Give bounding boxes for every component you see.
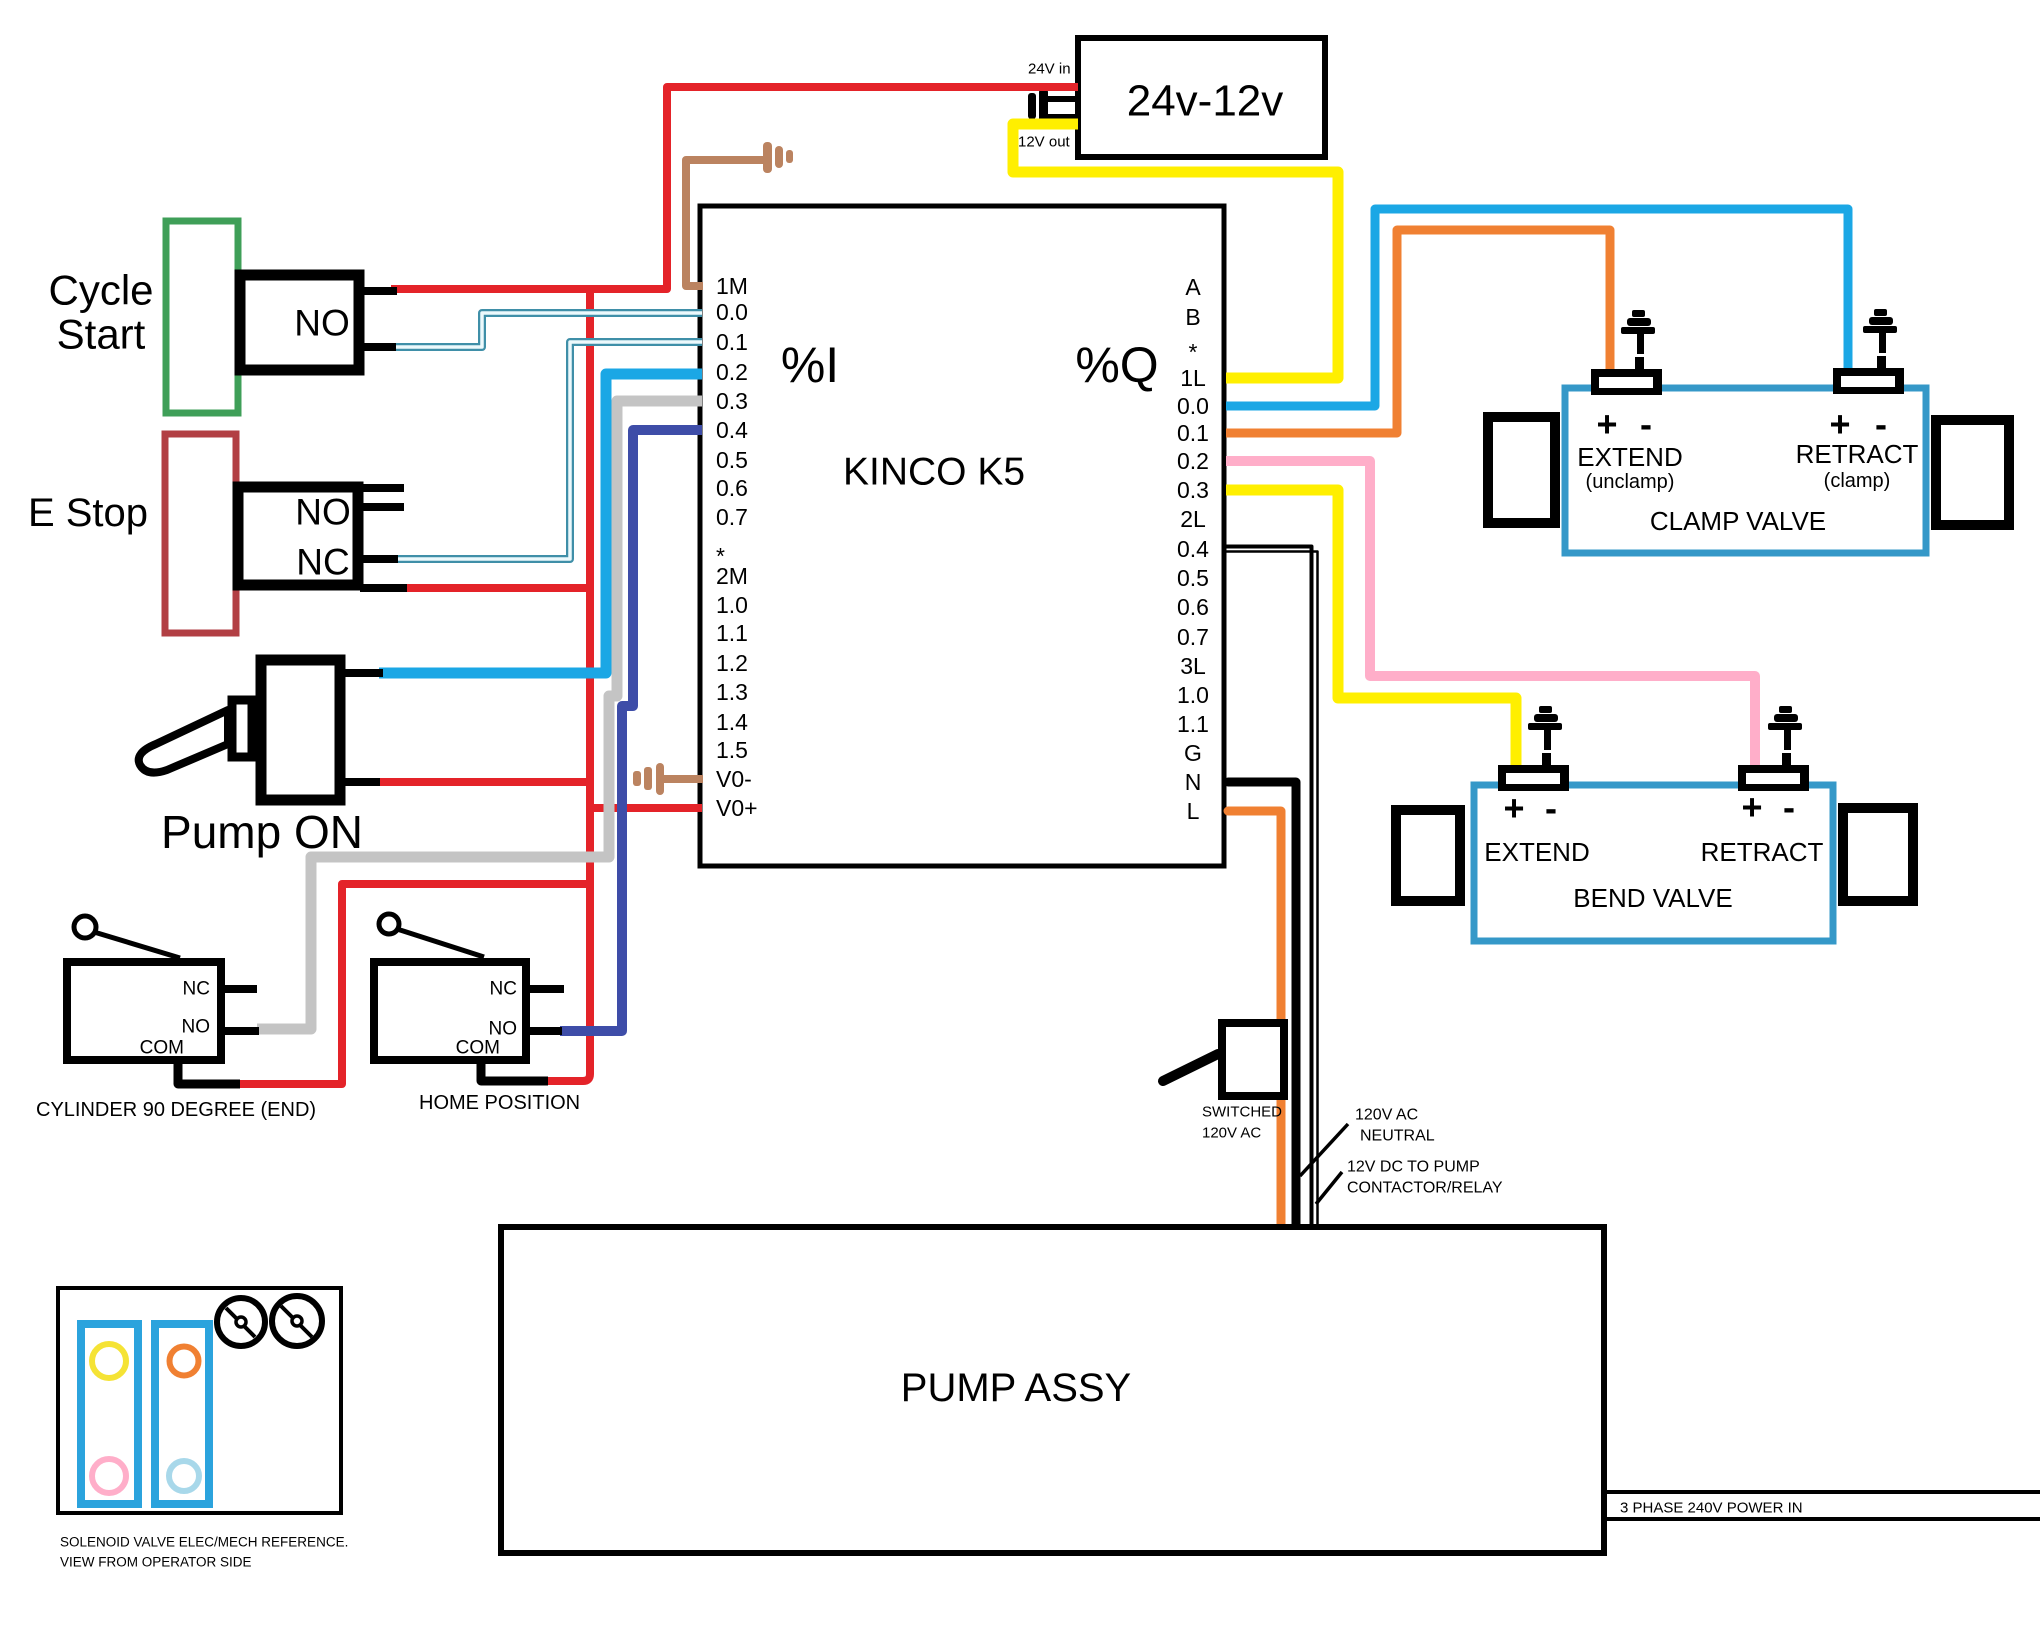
limit switch HOME POSITION [374, 914, 564, 1081]
svg-text:3L: 3L [1180, 653, 1206, 679]
PLC U1 KINCO K5 box [700, 206, 1224, 866]
svg-text:0.6: 0.6 [716, 475, 748, 501]
svg-text:1.2: 1.2 [716, 650, 748, 676]
svg-text:24V in: 24V in [1028, 61, 1071, 78]
black box right of bend valve [1843, 808, 1913, 901]
svg-text:0.7: 0.7 [1177, 624, 1209, 650]
svg-text:Pump ON: Pump ON [161, 806, 363, 858]
connector brown 3-bar plug at V0- [633, 763, 664, 795]
bus 3 PHASE 240V POWER IN [1604, 1492, 2040, 1519]
svg-text:0.2: 0.2 [1177, 448, 1209, 474]
svg-text:CONTACTOR/RELAY: CONTACTOR/RELAY [1347, 1180, 1503, 1197]
svg-text:(clamp): (clamp) [1824, 470, 1891, 492]
wire light-blue E-Stop NC to %I0.1 (outlined) [396, 342, 702, 559]
svg-text:COM: COM [140, 1038, 184, 1059]
gauge 1 [217, 1298, 265, 1346]
wire pink %Q0.2 to bend retract [1226, 461, 1755, 771]
svg-text:0.5: 0.5 [1177, 565, 1209, 591]
contact block NO of Cycle Start [240, 275, 397, 370]
PLC right pin labels A..L [1177, 274, 1209, 824]
wire yellow %Q0.3 to bend extend [1226, 490, 1516, 771]
label 120V AC NEUTRAL with leader [1300, 1107, 1435, 1177]
svg-text:NC: NC [183, 979, 210, 1000]
svg-text:1.1: 1.1 [1177, 711, 1209, 737]
svg-text:0.3: 0.3 [1177, 477, 1209, 503]
box PUMP ASSY [501, 1227, 1604, 1553]
svg-text:G: G [1184, 740, 1202, 766]
svg-text:0.1: 0.1 [1177, 420, 1209, 446]
svg-text:NO: NO [295, 492, 351, 533]
svg-text:0.4: 0.4 [1177, 536, 1209, 562]
black box left of clamp valve [1488, 417, 1555, 523]
svg-text:Start: Start [57, 311, 146, 358]
label 12V DC TO PUMP CONTACTOR/RELAY with leader [1316, 1159, 1503, 1205]
svg-text:NO: NO [489, 1019, 518, 1040]
connector brown 3-bar plug (top) [763, 142, 793, 173]
svg-text:120V AC: 120V AC [1202, 1125, 1261, 1142]
svg-text:A: A [1185, 274, 1201, 300]
pushbutton E Stop red bezel [165, 434, 236, 633]
svg-text:0.2: 0.2 [716, 359, 748, 385]
reference panel SOLENOID VALVE ELEC/MECH [58, 1288, 341, 1513]
svg-text:1.1: 1.1 [716, 620, 748, 646]
svg-text:NO: NO [294, 303, 350, 344]
svg-text:*: * [1189, 339, 1198, 365]
svg-text:0.3: 0.3 [716, 388, 748, 414]
svg-text:24v-12v: 24v-12v [1127, 77, 1284, 126]
black box right of clamp valve [1936, 420, 2009, 525]
wire brown V0- stub [662, 775, 703, 783]
svg-text:0.7: 0.7 [716, 504, 748, 530]
svg-text:RETRACT: RETRACT [1796, 439, 1919, 469]
svg-text:V0+: V0+ [716, 795, 758, 821]
wire blue %Q0.0 to clamp retract [1226, 209, 1848, 406]
svg-text:NEUTRAL: NEUTRAL [1360, 1128, 1435, 1145]
wire red E-Stop bottom to bus [403, 584, 590, 592]
svg-text:1.5: 1.5 [716, 737, 748, 763]
black box left of bend valve [1396, 810, 1460, 901]
svg-text:V0-: V0- [716, 766, 752, 792]
svg-text:EXTEND: EXTEND [1577, 442, 1682, 472]
wire grey cylinder NO to %I0.3 [257, 401, 702, 1029]
wire black N to pump [1228, 782, 1296, 1225]
converter 24v-12v box [1078, 38, 1325, 157]
svg-text:BEND VALVE: BEND VALVE [1573, 883, 1732, 913]
wire yellow 12V out to %Q 1L [1013, 124, 1338, 378]
svg-text:1.3: 1.3 [716, 679, 748, 705]
wire navy Home NO to %I0.4 [560, 430, 702, 1031]
svg-text:12V DC TO PUMP: 12V DC TO PUMP [1347, 1159, 1480, 1176]
wire brown 1M to connector [686, 160, 763, 286]
svg-text:2M: 2M [716, 563, 748, 589]
wire red Pump ON bottom to bus [378, 778, 590, 786]
wire red from Cycle Start NO to 24V in [391, 87, 1078, 289]
solenoid bend retract [1738, 706, 1809, 791]
svg-text:SWITCHED: SWITCHED [1202, 1104, 1282, 1121]
svg-text:PUMP ASSY: PUMP ASSY [901, 1366, 1131, 1410]
svg-text:(unclamp): (unclamp) [1586, 471, 1675, 493]
limit switch CYLINDER 90 DEGREE (END) [67, 916, 259, 1084]
svg-text:Cycle: Cycle [48, 267, 153, 314]
svg-text:1.4: 1.4 [716, 709, 748, 735]
svg-text:+: + [1503, 788, 1524, 829]
PLC left pin labels 1M..V0+ [716, 273, 758, 821]
svg-text:CLAMP VALVE: CLAMP VALVE [1650, 506, 1826, 536]
svg-text:CYLINDER 90 DEGREE (END): CYLINDER 90 DEGREE (END) [36, 1099, 316, 1121]
svg-text:1.0: 1.0 [716, 592, 748, 618]
svg-text:0.0: 0.0 [716, 299, 748, 325]
svg-text:1L: 1L [1180, 365, 1206, 391]
svg-text:1M: 1M [716, 273, 748, 299]
svg-text:VIEW FROM OPERATOR SIDE: VIEW FROM OPERATOR SIDE [60, 1555, 252, 1570]
svg-text:0.6: 0.6 [1177, 594, 1209, 620]
wire black double %Q0.4 to pump [1226, 547, 1318, 1226]
gauge 2 [272, 1296, 322, 1346]
wire cyan Pump ON to %I0.2 [379, 374, 702, 673]
svg-text:0.5: 0.5 [716, 447, 748, 473]
solenoid clamp retract [1833, 309, 1904, 394]
svg-text:-: - [1783, 787, 1795, 828]
valve box BEND VALVE [1474, 785, 1833, 941]
svg-text:0.0: 0.0 [1177, 393, 1209, 419]
svg-text:-: - [1545, 788, 1557, 829]
svg-text:3 PHASE 240V POWER IN: 3 PHASE 240V POWER IN [1620, 1500, 1803, 1517]
connector plug at 24v-12v input [1028, 89, 1078, 126]
svg-text:KINCO K5: KINCO K5 [843, 451, 1025, 494]
svg-text:EXTEND: EXTEND [1484, 837, 1589, 867]
svg-text:+: + [1596, 404, 1617, 445]
svg-text:SOLENOID VALVE ELEC/MECH REFER: SOLENOID VALVE ELEC/MECH REFERENCE. [60, 1535, 348, 1550]
svg-text:NO: NO [182, 1017, 211, 1038]
svg-text:-: - [1640, 404, 1652, 445]
svg-text:1.0: 1.0 [1177, 682, 1209, 708]
wire red cylinder COM to bus [234, 884, 590, 1084]
svg-text:NC: NC [490, 979, 517, 1000]
svg-text:NC: NC [296, 542, 349, 583]
svg-text:L: L [1187, 798, 1200, 824]
contact block NO/NC of E Stop [238, 487, 407, 588]
svg-text:%I: %I [781, 337, 839, 393]
wire light-blue Cycle Start NO to %I0.0 (outlined) [392, 313, 702, 347]
valve box CLAMP VALVE [1565, 388, 1926, 553]
toggle switch Pump ON [139, 660, 383, 800]
wire red vertical supply bus [545, 289, 590, 1081]
wire orange L to pump [1228, 811, 1281, 1225]
switch SWITCHED 120V AC [1163, 1023, 1284, 1096]
wire orange %Q0.1 to clamp extend [1226, 230, 1610, 433]
svg-text:0.4: 0.4 [716, 417, 748, 443]
svg-text:2L: 2L [1180, 506, 1206, 532]
svg-text:HOME POSITION: HOME POSITION [419, 1092, 580, 1114]
wire red bus to V0+ [590, 804, 702, 812]
pushbutton Cycle Start green bezel [166, 221, 238, 413]
svg-text:RETRACT: RETRACT [1701, 837, 1824, 867]
svg-text:%Q: %Q [1075, 337, 1158, 393]
svg-text:+: + [1741, 787, 1762, 828]
solenoid bend extend [1498, 706, 1569, 791]
svg-text:120V AC: 120V AC [1355, 1107, 1418, 1124]
svg-text:12V out: 12V out [1018, 134, 1071, 151]
svg-text:COM: COM [456, 1038, 500, 1059]
svg-text:E Stop: E Stop [28, 491, 148, 535]
solenoid clamp extend [1591, 310, 1662, 395]
svg-text:N: N [1185, 769, 1202, 795]
svg-text:B: B [1185, 304, 1200, 330]
svg-text:0.1: 0.1 [716, 329, 748, 355]
